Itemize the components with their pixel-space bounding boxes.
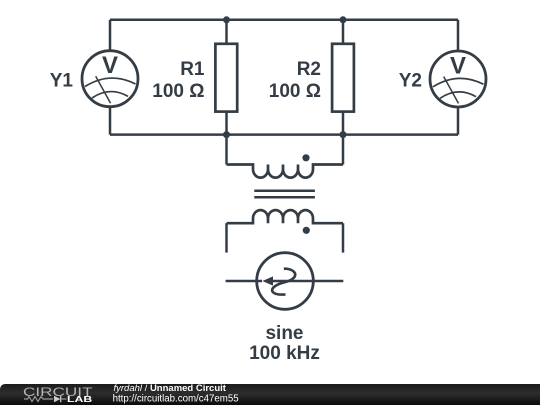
transformer secondary polarity dot bbox=[303, 227, 310, 234]
resistor R2 bbox=[332, 44, 354, 112]
svg-text:V: V bbox=[450, 53, 466, 80]
node junction dot R1 top bbox=[223, 16, 230, 23]
transformer primary polarity dot bbox=[302, 154, 309, 161]
wire bottom rail bbox=[110, 133, 458, 136]
transformer T1 bbox=[227, 135, 344, 253]
node junction dot R2 top bbox=[340, 16, 347, 23]
logo resistor zigzag bbox=[24, 397, 53, 402]
svg-text:LAB: LAB bbox=[67, 396, 93, 405]
svg-text:100 Ω: 100 Ω bbox=[152, 81, 204, 102]
inductor L2 secondary winding bbox=[227, 210, 344, 223]
wire source left stub bbox=[226, 280, 262, 283]
svg-text:100 Ω: 100 Ω bbox=[269, 81, 321, 102]
svg-text:Y2: Y2 bbox=[399, 71, 422, 92]
wire R2 top lead bbox=[342, 20, 345, 44]
svg-text:sine: sine bbox=[265, 323, 303, 344]
wire secondary left vertical bbox=[225, 223, 228, 252]
footer bar bbox=[0, 384, 540, 405]
wire primary left vertical bbox=[225, 135, 228, 165]
wire Y2 top lead bbox=[457, 20, 460, 52]
wire Y1 bottom lead bbox=[109, 107, 112, 135]
transformer core line 1 bbox=[254, 190, 315, 193]
svg-text:V: V bbox=[102, 52, 118, 79]
wire secondary right vertical bbox=[342, 223, 345, 252]
svg-text:http://circuitlab.com/c47em55: http://circuitlab.com/c47em55 bbox=[113, 393, 239, 404]
wire R1 top lead bbox=[225, 20, 228, 44]
source arrow bbox=[262, 276, 273, 285]
wire Y1 top lead bbox=[109, 20, 112, 52]
source sine squiggle bbox=[272, 269, 295, 295]
inductor L1 primary winding bbox=[227, 165, 344, 178]
voltmeter Y2 bbox=[430, 51, 486, 107]
node junction dot R1 bottom bbox=[223, 131, 230, 138]
wire top rail bbox=[110, 19, 458, 22]
svg-text:Y1: Y1 bbox=[50, 71, 74, 92]
svg-text:100 kHz: 100 kHz bbox=[249, 343, 320, 364]
wire Y2 bottom lead bbox=[457, 107, 460, 135]
voltmeter Y1 bbox=[82, 51, 138, 107]
current source I1 sine bbox=[226, 253, 344, 310]
node junction dot R2 bottom bbox=[340, 131, 347, 138]
svg-text:R2: R2 bbox=[297, 59, 321, 80]
transformer core line 2 bbox=[254, 196, 315, 199]
wire source inner line and right stub bbox=[266, 280, 343, 283]
logo diode bbox=[54, 396, 61, 402]
wire R1 bottom lead bbox=[225, 112, 228, 135]
svg-text:R1: R1 bbox=[180, 59, 205, 80]
wire primary right vertical bbox=[342, 135, 345, 165]
resistor R1 bbox=[215, 44, 237, 112]
wire R2 bottom lead bbox=[342, 112, 345, 135]
